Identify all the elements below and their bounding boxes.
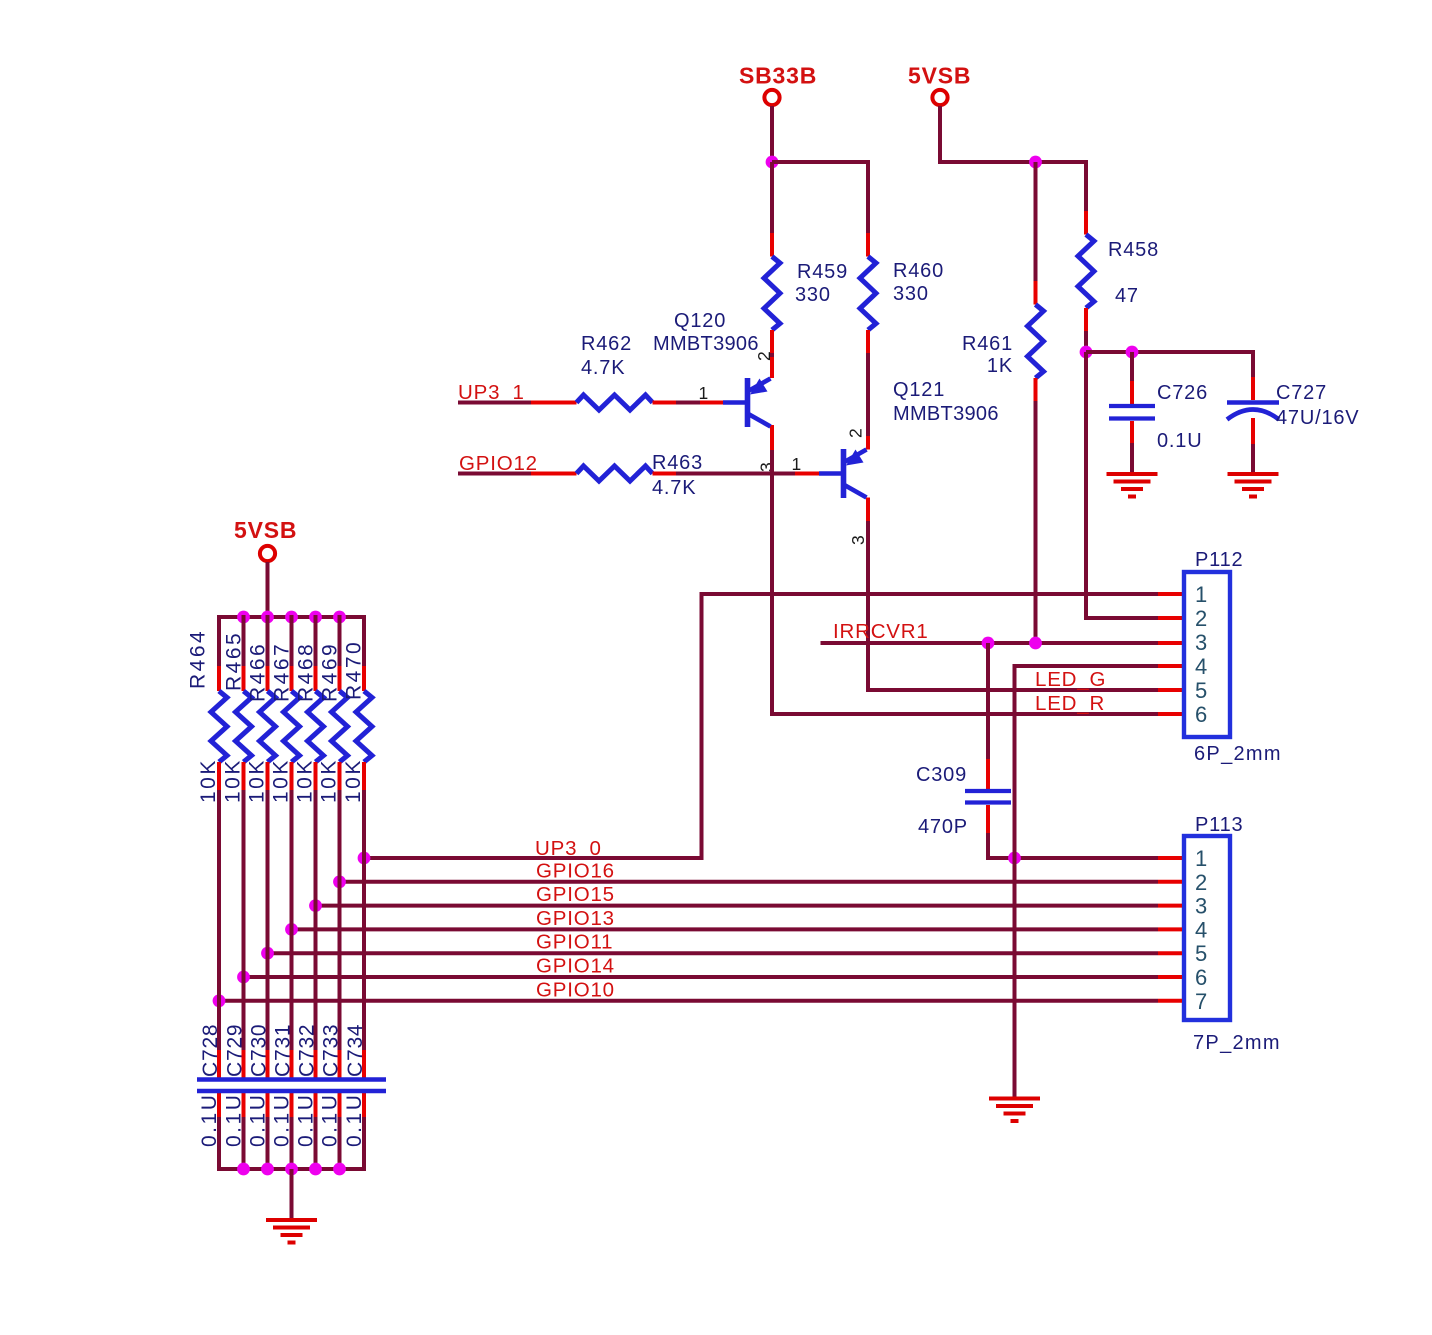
svg-text:R465: R465 xyxy=(223,631,246,691)
wire xyxy=(770,106,774,162)
svg-text:6P_2mm: 6P_2mm xyxy=(1194,743,1282,765)
node ground column junction xyxy=(1008,852,1021,865)
node GPIO16 tap xyxy=(333,875,346,888)
wire xyxy=(772,160,870,164)
transistor Q121 MMBT3906 xyxy=(791,379,998,545)
resistor R467 xyxy=(270,615,300,803)
svg-text:10K: 10K xyxy=(342,758,365,803)
capacitor C726 xyxy=(1109,352,1208,472)
resistor R465 xyxy=(222,615,252,803)
svg-text:3: 3 xyxy=(1195,894,1207,919)
svg-text:Q121: Q121 xyxy=(893,379,945,401)
svg-text:GPIO11: GPIO11 xyxy=(536,931,613,954)
wire xyxy=(986,643,990,759)
svg-text:R467: R467 xyxy=(271,642,294,702)
svg-text:IRRCVR1: IRRCVR1 xyxy=(833,620,929,643)
svg-text:1: 1 xyxy=(1195,582,1207,607)
wire R461 to IRRCVR1 xyxy=(1034,401,1038,643)
node GPIO11 tap xyxy=(261,947,274,960)
resistor R469 xyxy=(318,615,348,803)
node bottom bus junction xyxy=(237,1163,250,1176)
resistor R470 xyxy=(342,615,372,803)
capacitor bank plates xyxy=(197,1080,386,1092)
wire GPIO14 row xyxy=(244,975,1159,979)
capacitor C727 polarized xyxy=(1227,350,1359,472)
resistor R468 xyxy=(294,615,324,803)
svg-text:330: 330 xyxy=(893,283,929,305)
node bus junction xyxy=(285,611,298,624)
svg-text:10K: 10K xyxy=(294,758,317,803)
resistor R464 xyxy=(187,615,228,803)
svg-text:1: 1 xyxy=(1195,846,1207,871)
svg-text:LED_G: LED_G xyxy=(1035,668,1106,691)
svg-text:6: 6 xyxy=(1195,702,1207,727)
svg-text:10K: 10K xyxy=(318,758,341,803)
resistor R463 xyxy=(531,452,703,499)
node bus junction xyxy=(261,611,274,624)
wire SB33B pull-up to transistor xyxy=(770,353,774,357)
wire column xyxy=(290,790,294,1050)
wire xyxy=(938,106,942,162)
wire xyxy=(1251,444,1255,472)
svg-text:330: 330 xyxy=(795,284,831,306)
svg-text:7: 7 xyxy=(1195,989,1207,1014)
svg-text:470P: 470P xyxy=(918,816,968,838)
svg-text:MMBT3906: MMBT3906 xyxy=(653,333,759,355)
svg-text:GPIO13: GPIO13 xyxy=(536,907,615,930)
node C309 top junction xyxy=(982,637,995,650)
wire Q121 collector to LED_G / P112 pin 5 xyxy=(866,521,870,692)
wire xyxy=(458,472,531,476)
resistor R462 xyxy=(531,333,676,410)
wire xyxy=(676,472,795,476)
wire GPIO10 row xyxy=(219,999,1158,1003)
wire xyxy=(938,160,1088,164)
capacitor C734 xyxy=(343,1024,367,1147)
wire xyxy=(1251,350,1255,377)
wire xyxy=(1086,350,1255,354)
wire resistor bank top bus xyxy=(217,615,366,619)
node bus junction xyxy=(333,611,346,624)
svg-text:3: 3 xyxy=(1195,630,1207,655)
resistor R466 xyxy=(246,615,276,803)
svg-text:10K: 10K xyxy=(270,758,293,803)
wire IRRCVR1 to P112 pin 3 xyxy=(821,641,1159,645)
svg-text:C731: C731 xyxy=(272,1024,295,1077)
svg-text:R459: R459 xyxy=(797,261,848,283)
svg-text:P113: P113 xyxy=(1195,814,1243,836)
svg-text:C726: C726 xyxy=(1157,382,1208,404)
node UP3_0 tap xyxy=(358,852,371,865)
svg-text:R468: R468 xyxy=(295,642,318,702)
svg-text:6: 6 xyxy=(1195,965,1207,990)
svg-text:1: 1 xyxy=(698,383,709,403)
svg-text:2: 2 xyxy=(1195,606,1207,631)
wire xyxy=(1084,160,1088,211)
svg-text:C733: C733 xyxy=(320,1024,343,1077)
capacitor C731 xyxy=(271,1024,295,1147)
svg-text:C734: C734 xyxy=(344,1024,367,1077)
svg-text:C728: C728 xyxy=(199,1024,222,1077)
node bus junction xyxy=(309,611,322,624)
wire xyxy=(1130,443,1134,472)
connector P113 xyxy=(1184,814,1281,1054)
svg-text:C729: C729 xyxy=(224,1024,247,1077)
svg-text:R463: R463 xyxy=(652,452,703,474)
wire column xyxy=(242,790,246,1050)
node GPIO14 tap xyxy=(237,971,250,984)
wire ground stem xyxy=(290,1169,294,1219)
capacitor C728 xyxy=(198,1024,222,1147)
wire GPIO16 row xyxy=(340,880,1159,884)
svg-text:5VSB: 5VSB xyxy=(234,517,297,543)
svg-text:4.7K: 4.7K xyxy=(652,477,696,499)
wire C309 bottom to P113 pin 1 xyxy=(986,856,1158,860)
svg-text:C727: C727 xyxy=(1276,382,1327,404)
net UP3_0 riser to P112 pin 1 xyxy=(700,592,1159,596)
node R461 bottom junction xyxy=(1029,637,1042,650)
wire column xyxy=(338,790,342,1050)
node GPIO15 tap xyxy=(309,899,322,912)
svg-text:GPIO14: GPIO14 xyxy=(536,955,615,978)
svg-text:1K: 1K xyxy=(987,355,1013,377)
wire column xyxy=(314,790,318,1050)
capacitor C732 xyxy=(295,1024,319,1147)
wire xyxy=(1130,352,1134,381)
svg-text:R464: R464 xyxy=(187,629,210,689)
wire bottom bus xyxy=(217,1167,366,1171)
svg-text:2: 2 xyxy=(1195,870,1207,895)
wire xyxy=(266,562,270,617)
svg-text:7P_2mm: 7P_2mm xyxy=(1193,1032,1281,1054)
node SB33B junction xyxy=(766,156,779,169)
wire R458 to cap rail xyxy=(1084,331,1088,352)
wire GPIO15 row xyxy=(316,904,1159,908)
wire xyxy=(986,833,990,858)
ground under capacitor bank xyxy=(266,1220,317,1243)
wire column to bottom bus xyxy=(242,1117,246,1171)
wire column to bottom bus xyxy=(314,1117,318,1171)
wire column to bottom bus xyxy=(266,1117,270,1171)
svg-text:SB33B: SB33B xyxy=(739,63,817,89)
svg-text:P112: P112 xyxy=(1195,549,1243,571)
svg-text:10K: 10K xyxy=(197,758,220,803)
svg-text:GPIO15: GPIO15 xyxy=(536,883,615,906)
capacitor C730 xyxy=(247,1024,271,1147)
capacitor C733 xyxy=(319,1024,343,1147)
svg-text:R460: R460 xyxy=(893,260,944,282)
svg-text:3: 3 xyxy=(848,534,868,545)
capacitor C309 xyxy=(916,643,1011,858)
svg-text:5: 5 xyxy=(1195,941,1207,966)
ground under C726 xyxy=(1107,474,1158,497)
node 5VSB junction xyxy=(1029,156,1042,169)
svg-text:2: 2 xyxy=(846,427,866,438)
svg-text:GPIO10: GPIO10 xyxy=(536,978,615,1001)
wire xyxy=(1034,162,1038,281)
svg-text:4: 4 xyxy=(1195,654,1207,679)
wire GPIO13 row xyxy=(292,927,1159,931)
svg-text:MMBT3906: MMBT3906 xyxy=(893,403,999,425)
node bottom bus junction xyxy=(309,1163,322,1176)
svg-text:C309: C309 xyxy=(916,764,967,786)
svg-text:47: 47 xyxy=(1115,285,1139,307)
wire column to bottom bus xyxy=(338,1117,342,1171)
node cap rail junction xyxy=(1080,346,1093,359)
wire xyxy=(866,160,870,233)
port circle 5VSB xyxy=(932,90,947,105)
ground under C727 xyxy=(1228,474,1279,497)
svg-text:10K: 10K xyxy=(222,758,245,803)
node C726 junction xyxy=(1126,346,1139,359)
wire xyxy=(676,401,700,405)
transistor Q120 MMBT3906 xyxy=(653,310,777,472)
svg-text:1: 1 xyxy=(791,454,802,474)
wire GPIO11 row xyxy=(268,951,1159,955)
wire 5VSB rail to P112 pin 2 xyxy=(1084,352,1088,620)
node GPIO13 tap xyxy=(285,923,298,936)
svg-text:R470: R470 xyxy=(343,640,366,700)
svg-text:R461: R461 xyxy=(962,333,1013,355)
svg-text:GPIO16: GPIO16 xyxy=(536,859,615,882)
resistor R459 xyxy=(764,162,848,353)
resistor R460 xyxy=(860,160,944,353)
svg-text:C730: C730 xyxy=(248,1024,271,1077)
svg-text:C732: C732 xyxy=(296,1024,319,1077)
port circle 5VSB left xyxy=(260,546,275,561)
wire column to bottom bus xyxy=(290,1117,294,1171)
svg-text:0.1U: 0.1U xyxy=(1157,430,1202,452)
svg-text:R466: R466 xyxy=(247,642,270,702)
svg-text:4: 4 xyxy=(1195,917,1207,942)
svg-text:5VSB: 5VSB xyxy=(908,63,971,89)
svg-text:R469: R469 xyxy=(319,642,342,702)
port circle SB33B xyxy=(764,90,779,105)
wire column to bottom bus xyxy=(362,1117,366,1171)
svg-text:R462: R462 xyxy=(581,333,632,355)
wire Q120 collector to LED_R / P112 pin 6 xyxy=(770,450,774,716)
svg-text:4.7K: 4.7K xyxy=(581,357,625,379)
node bottom bus junction xyxy=(285,1163,298,1176)
wire xyxy=(770,162,774,233)
resistor R458 xyxy=(1078,160,1159,331)
ground under connector column xyxy=(989,1099,1040,1122)
wire R460 to Q121 emitter xyxy=(866,353,870,436)
svg-text:R458: R458 xyxy=(1108,239,1159,261)
node GPIO10 tap xyxy=(213,994,226,1007)
wire column to bottom bus xyxy=(217,1117,221,1171)
connector P112 xyxy=(1184,549,1282,765)
wire P112 pin 4 to ground column xyxy=(1013,664,1159,668)
svg-text:Q120: Q120 xyxy=(674,310,726,332)
wire column xyxy=(362,790,366,1050)
node bottom bus junction xyxy=(261,1163,274,1176)
resistor R461 xyxy=(962,162,1044,401)
svg-text:47U/16V: 47U/16V xyxy=(1276,407,1359,429)
node bottom bus junction xyxy=(333,1163,346,1176)
node bus junction xyxy=(237,611,250,624)
wire column xyxy=(217,790,221,1050)
wire UP3_0 row xyxy=(364,856,704,860)
wire xyxy=(458,401,531,405)
capacitor C729 xyxy=(223,1024,247,1147)
svg-text:5: 5 xyxy=(1195,678,1207,703)
svg-text:LED_R: LED_R xyxy=(1035,692,1105,715)
svg-text:10K: 10K xyxy=(246,758,269,803)
wire column xyxy=(266,790,270,1050)
